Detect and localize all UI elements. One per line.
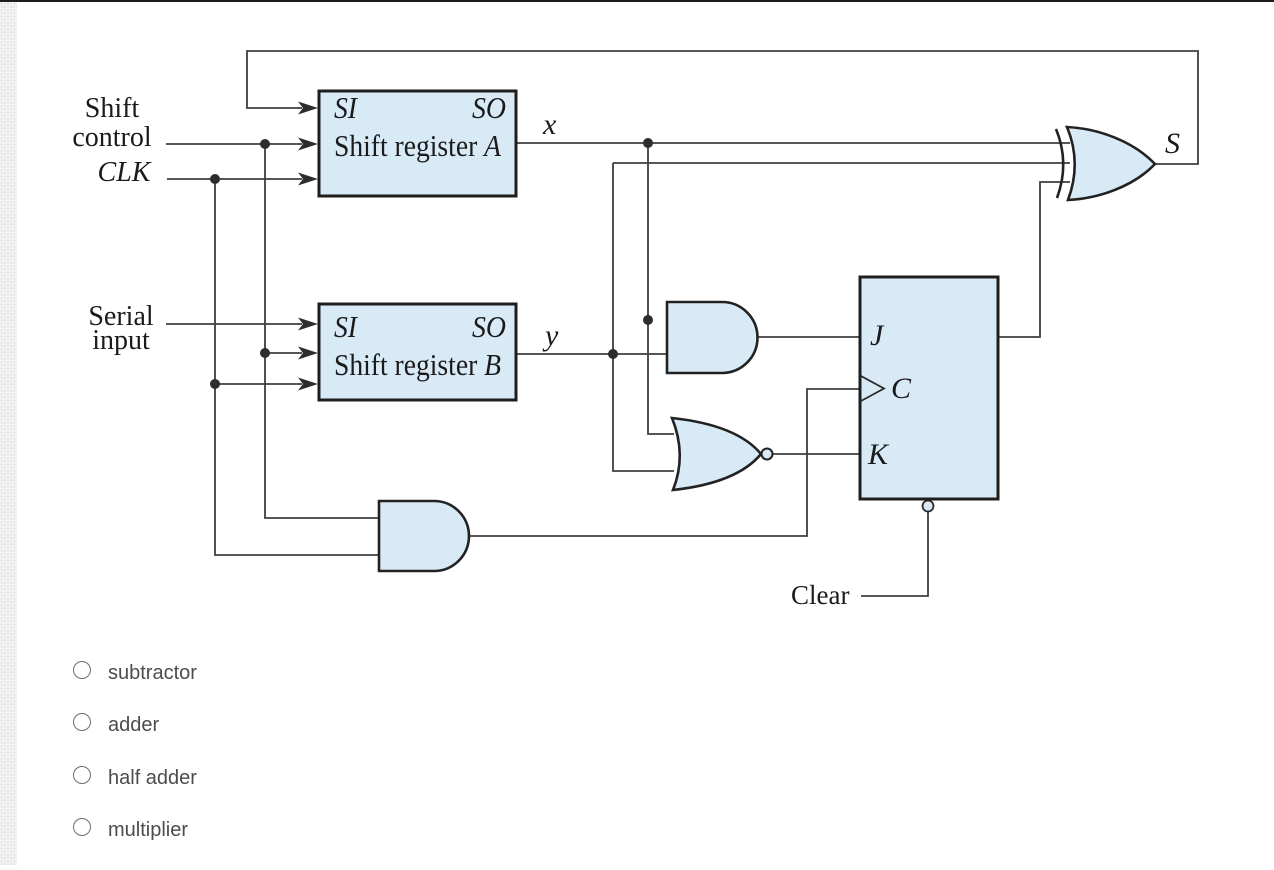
svg-text:Shift register B: Shift register B — [334, 347, 501, 382]
node: dot CLK line — [210, 174, 220, 184]
arrowhead shift control register A — [298, 138, 318, 151]
wire CLK — [167, 178, 302, 180]
svg-text:C: C — [891, 372, 912, 405]
svg-text:Shift: Shift — [85, 93, 140, 124]
node: dot shift control at register B — [260, 348, 270, 358]
wire y branch vertical to NOR — [613, 163, 674, 471]
svg-text:SO: SO — [472, 90, 506, 125]
wire serial input — [166, 323, 302, 325]
radio option half adder — [64, 763, 664, 787]
wire x vertical branch to AND and NOR — [648, 143, 674, 434]
svg-text:J: J — [870, 319, 885, 352]
JK flip-flop clock triangle — [861, 376, 884, 401]
arrowhead SI register A — [298, 102, 318, 115]
XOR extra input curve — [1056, 129, 1063, 198]
wire NOR output to K — [773, 453, 861, 455]
node: dot shift control line — [260, 139, 270, 149]
arrowhead serial input register B — [298, 318, 318, 331]
wire y branch to XOR input 2 — [613, 162, 1070, 164]
node: dot CLK at register B — [210, 379, 220, 389]
svg-text:control: control — [72, 122, 152, 153]
svg-text:SI: SI — [334, 309, 358, 344]
shift register B box — [319, 304, 516, 400]
svg-text:input: input — [92, 325, 150, 356]
radio option subtractor — [64, 658, 664, 682]
wire y from register B — [516, 353, 668, 355]
wire CLK to register B — [215, 383, 302, 385]
NOR gate (K input) — [672, 418, 761, 490]
shift register A box — [319, 91, 516, 196]
arrowhead CLK register A — [298, 173, 318, 186]
svg-text:SO: SO — [472, 309, 506, 344]
wire Clear — [861, 511, 928, 596]
arrowhead shift control register B — [298, 347, 318, 360]
NOR output bubble — [762, 449, 773, 460]
svg-text:y: y — [542, 319, 559, 352]
arrowhead CLK register B — [298, 378, 318, 391]
svg-text:Clear: Clear — [791, 580, 849, 610]
JK flip-flop box — [860, 277, 998, 499]
svg-text:SI: SI — [334, 90, 358, 125]
wire AND output to J — [757, 336, 861, 338]
AND gate carry (J input) — [667, 302, 758, 373]
JK flip-flop clear bubble — [923, 501, 934, 512]
radio option multiplier — [64, 815, 664, 839]
node: dot x at AND input — [643, 315, 653, 325]
wire shift control — [166, 143, 302, 145]
svg-text:CLK: CLK — [98, 157, 152, 188]
wire shift control to register B — [265, 352, 302, 354]
left textured sidebar — [0, 2, 17, 865]
wire x from register A to XOR — [516, 142, 1070, 144]
svg-text:K: K — [867, 438, 890, 471]
wire CLK vertical to AND gate — [215, 179, 380, 555]
svg-text:S: S — [1165, 127, 1180, 160]
node: dot x line — [643, 138, 653, 148]
svg-text:Shift register A: Shift register A — [334, 128, 502, 163]
svg-text:x: x — [542, 108, 557, 141]
wire shift control vertical to AND gate — [265, 144, 380, 518]
XOR gate sum — [1067, 127, 1155, 200]
node: dot y line — [608, 349, 618, 359]
wire Q output to XOR input 3 — [998, 182, 1070, 337]
wire feedback S to SI of register A — [247, 51, 1198, 164]
wire clock AND output to C — [468, 389, 860, 536]
top black bar — [0, 0, 1274, 2]
AND gate clock gating — [379, 501, 469, 571]
radio option adder — [64, 710, 664, 734]
